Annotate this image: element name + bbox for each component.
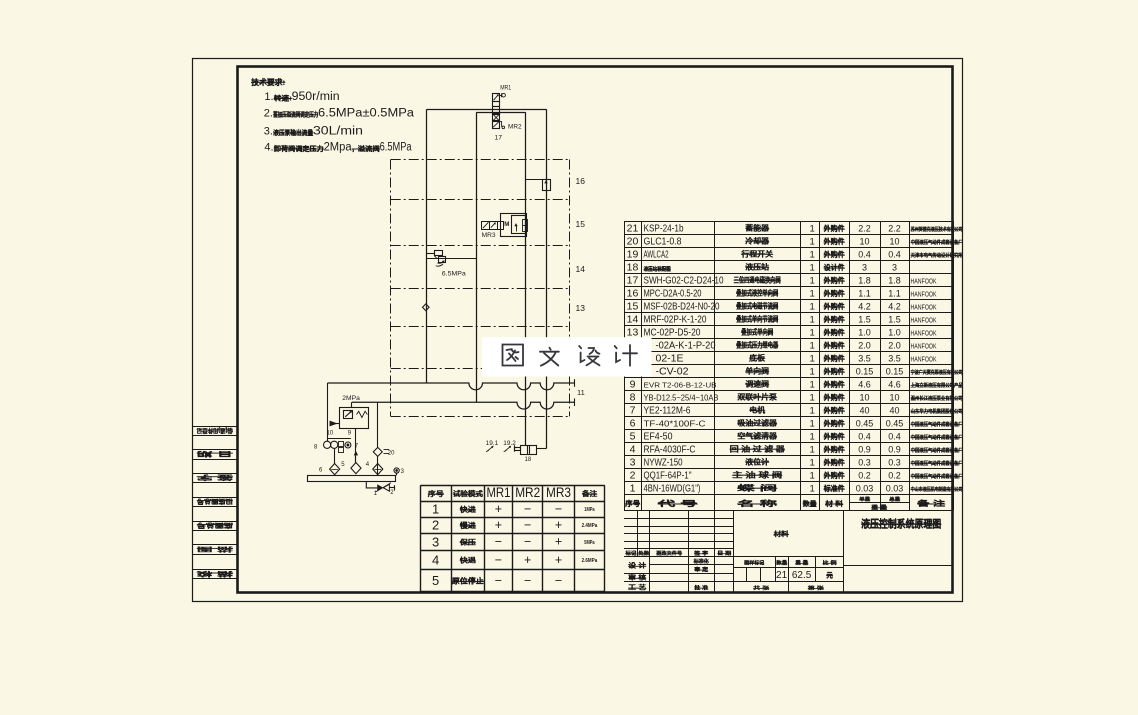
svg-text:0.3: 0.3	[858, 458, 871, 468]
svg-text:0.03: 0.03	[886, 484, 904, 494]
svg-text:备注: 备注	[581, 489, 597, 498]
svg-text:40: 40	[889, 406, 899, 416]
svg-text:10: 10	[889, 237, 899, 247]
svg-text:HANFOOK: HANFOOK	[911, 355, 937, 364]
svg-text:处数: 处数	[637, 550, 649, 557]
svg-text:快退: 快退	[460, 556, 476, 565]
svg-text:外购件: 外购件	[824, 250, 845, 259]
svg-text:日 期: 日 期	[197, 450, 233, 458]
svg-text:行程开关: 行程开关	[740, 250, 774, 259]
svg-text:2.0: 2.0	[858, 341, 871, 351]
svg-text:外购件: 外购件	[824, 315, 845, 324]
svg-text:名 称: 名 称	[737, 499, 777, 508]
svg-text:天津市电气传动设计研究所: 天津市电气传动设计研究所	[911, 251, 964, 259]
svg-text:外购件: 外购件	[824, 458, 845, 467]
svg-text:−: −	[555, 573, 562, 587]
svg-text:主 油 球 阀: 主 油 球 阀	[732, 471, 782, 480]
svg-text:回 油 过 滤 器: 回 油 过 滤 器	[730, 445, 786, 454]
svg-text:10: 10	[859, 237, 869, 247]
svg-text:叠加式单向阀: 叠加式单向阀	[741, 328, 773, 337]
svg-text:0.45: 0.45	[856, 419, 874, 429]
svg-text:蝶 阀: 蝶 阀	[737, 484, 777, 493]
svg-text:备 注: 备 注	[916, 499, 946, 508]
svg-text:1: 1	[810, 315, 815, 326]
svg-text:外购件: 外购件	[824, 367, 845, 376]
svg-text:YE2-112M-6: YE2-112M-6	[644, 406, 691, 417]
svg-text:MRF-02P-K-1-20: MRF-02P-K-1-20	[644, 315, 707, 326]
svg-text:外购件: 外购件	[824, 341, 845, 350]
svg-text:−: −	[495, 573, 502, 587]
svg-text:3.5: 3.5	[888, 354, 901, 364]
svg-text:中国液压气动件成套设备厂: 中国液压气动件成套设备厂	[911, 433, 963, 441]
svg-text:重 量: 重 量	[871, 503, 888, 511]
svg-text:签 字: 签 字	[197, 473, 236, 481]
svg-text:HANFOOK: HANFOOK	[911, 277, 937, 286]
svg-text:SWH-G02-C2-D24-10: SWH-G02-C2-D24-10	[644, 276, 724, 287]
svg-text:1.1: 1.1	[858, 289, 871, 299]
svg-text:+: +	[555, 553, 562, 567]
svg-text:叠加式电磁节流阀: 叠加式电磁节流阀	[736, 302, 778, 311]
svg-text:液压站: 液压站	[746, 263, 771, 272]
svg-text:EF4-50: EF4-50	[644, 432, 673, 443]
svg-text:−: −	[524, 502, 531, 516]
svg-text:1: 1	[810, 354, 815, 365]
svg-text:1.8: 1.8	[888, 276, 901, 286]
svg-text:14: 14	[576, 264, 586, 274]
svg-text:+: +	[555, 518, 562, 532]
svg-text:3: 3	[630, 457, 636, 469]
svg-text:3.5: 3.5	[858, 354, 871, 364]
svg-text:1: 1	[630, 483, 636, 495]
svg-text:标准化: 标准化	[693, 557, 710, 565]
svg-text:QQ1F-64P-1": QQ1F-64P-1"	[644, 471, 692, 482]
svg-text:5MPa: 5MPa	[584, 540, 594, 546]
svg-text:液位计: 液位计	[746, 458, 771, 467]
svg-text:慢进: 慢进	[460, 521, 476, 530]
svg-text:1: 1	[810, 341, 815, 352]
svg-text:中国液压气动件成套设备厂: 中国液压气动件成套设备厂	[911, 446, 963, 454]
svg-text:1: 1	[810, 432, 815, 443]
svg-text:GLC1-0.8: GLC1-0.8	[644, 237, 682, 248]
svg-text:6.5MPa: 6.5MPa	[442, 270, 467, 277]
svg-text:外购件: 外购件	[824, 445, 845, 454]
svg-text:第 张: 第 张	[808, 585, 824, 592]
svg-text:4.6: 4.6	[888, 380, 901, 390]
svg-text:审 定: 审 定	[694, 566, 709, 574]
svg-text:日 期: 日 期	[717, 550, 731, 557]
svg-text:蓄能器: 蓄能器	[746, 224, 771, 233]
svg-text:+: +	[524, 553, 531, 567]
svg-text:+: +	[495, 502, 502, 516]
svg-text:1: 1	[810, 445, 815, 456]
svg-text:0.2: 0.2	[888, 471, 901, 481]
svg-text:1: 1	[810, 380, 815, 391]
svg-text:旧底图总号: 旧底图总号	[197, 497, 233, 505]
svg-text:2.6MPa: 2.6MPa	[582, 558, 598, 564]
svg-text:代 号: 代 号	[655, 499, 698, 508]
svg-text:宁波广天赛克思液压有限公司: 宁波广天赛克思液压有限公司	[911, 368, 963, 376]
svg-text:1.8: 1.8	[858, 276, 871, 286]
svg-text:1.5: 1.5	[888, 315, 901, 325]
svg-text:M: M	[504, 221, 509, 228]
svg-text:快进: 快进	[460, 505, 476, 514]
svg-text:13: 13	[576, 303, 586, 313]
svg-text:15: 15	[576, 219, 586, 229]
svg-text:技术要求:: 技术要求:	[251, 77, 285, 87]
svg-text:叠加式单向节流阀: 叠加式单向节流阀	[736, 315, 778, 324]
svg-text:11: 11	[577, 388, 585, 397]
svg-text:HANFOOK: HANFOOK	[911, 290, 937, 299]
svg-text:比 例: 比 例	[823, 560, 837, 567]
svg-text:电机: 电机	[749, 406, 766, 415]
svg-text:中国液压气动件成套设备厂: 中国液压气动件成套设备厂	[911, 472, 963, 480]
svg-text:借(通)用件登记: 借(通)用件登记	[197, 426, 234, 434]
svg-text:1: 1	[810, 419, 815, 430]
svg-text:TF-40*100F-C: TF-40*100F-C	[644, 419, 706, 429]
svg-text:单向阀: 单向阀	[746, 367, 770, 376]
svg-text:−: −	[495, 553, 502, 567]
svg-text:2: 2	[432, 518, 439, 533]
svg-text:10: 10	[327, 430, 334, 436]
svg-text:-02A-K-1-P-20: -02A-K-1-P-20	[656, 341, 716, 352]
svg-text:2: 2	[630, 470, 636, 482]
svg-text:外购件: 外购件	[824, 302, 845, 311]
svg-text:共 张: 共 张	[753, 585, 769, 592]
svg-text:中国液压气动件成套设备厂: 中国液压气动件成套设备厂	[911, 238, 963, 246]
svg-text:MPC-D2A-0.5-20: MPC-D2A-0.5-20	[644, 289, 702, 300]
svg-text:0.4: 0.4	[888, 250, 901, 260]
svg-text:0.03: 0.03	[856, 484, 874, 494]
svg-text:0.4: 0.4	[858, 250, 871, 260]
svg-text:16: 16	[627, 288, 639, 300]
svg-text:0.15: 0.15	[886, 367, 904, 377]
svg-text:19.2: 19.2	[503, 440, 516, 447]
svg-text:21: 21	[776, 570, 788, 581]
svg-text:MC-02P-D5-20: MC-02P-D5-20	[644, 328, 701, 339]
svg-text:1.5: 1.5	[858, 315, 871, 325]
svg-text:10: 10	[859, 393, 869, 403]
svg-text:设计件: 设计件	[824, 263, 845, 272]
svg-text:RFA-4030F-C: RFA-4030F-C	[644, 445, 696, 456]
svg-text:0.4: 0.4	[888, 432, 901, 442]
svg-text:吸油过滤器: 吸油过滤器	[738, 419, 778, 428]
svg-text:描 校: 描 校	[194, 570, 233, 578]
svg-text:中国液压气动件成套设备厂: 中国液压气动件成套设备厂	[911, 420, 963, 428]
svg-text:0.2: 0.2	[858, 471, 871, 481]
svg-text:1: 1	[810, 276, 815, 287]
svg-text:1MPa: 1MPa	[584, 507, 594, 513]
svg-text:18: 18	[525, 457, 532, 463]
svg-text:4: 4	[432, 552, 439, 567]
svg-text:0.45: 0.45	[886, 419, 904, 429]
svg-text:5: 5	[432, 573, 439, 588]
svg-text:2MPa: 2MPa	[342, 395, 360, 402]
svg-text:温州长江液压泵业有限公司: 温州长江液压泵业有限公司	[911, 394, 963, 402]
svg-text:外购件: 外购件	[824, 328, 845, 337]
svg-text:数量: 数量	[803, 499, 818, 508]
svg-text:1: 1	[810, 406, 815, 417]
svg-text:描 图: 描 图	[197, 545, 233, 553]
svg-text:中国液压气动件成套设备厂: 中国液压气动件成套设备厂	[911, 459, 963, 467]
svg-text:液压控制系统原理图: 液压控制系统原理图	[861, 517, 941, 530]
svg-text:20: 20	[388, 451, 395, 457]
svg-text:4.6: 4.6	[858, 380, 871, 390]
svg-text:序号: 序号	[624, 499, 640, 508]
svg-text:重 量: 重 量	[795, 560, 808, 567]
svg-text:+: +	[555, 535, 562, 549]
svg-text:外购件: 外购件	[824, 419, 845, 428]
svg-text:设 计: 设 计	[628, 562, 646, 570]
svg-text:1: 1	[810, 289, 815, 300]
svg-text:2.2: 2.2	[858, 224, 871, 234]
svg-text:原位停止: 原位停止	[452, 576, 484, 585]
svg-text:21: 21	[627, 223, 639, 235]
svg-text:HANFOOK: HANFOOK	[911, 316, 937, 325]
svg-text:1: 1	[810, 367, 815, 378]
svg-text:1: 1	[810, 328, 815, 339]
svg-text:40: 40	[859, 406, 869, 416]
svg-text:保压: 保压	[459, 538, 476, 547]
svg-text:19: 19	[627, 249, 639, 261]
svg-text:9: 9	[630, 379, 636, 391]
svg-text:MR3: MR3	[546, 484, 571, 500]
svg-text:0.9: 0.9	[858, 445, 871, 455]
svg-text:总重: 总重	[889, 496, 900, 503]
svg-text:4.2: 4.2	[888, 302, 901, 312]
svg-text:1.0: 1.0	[858, 328, 871, 338]
svg-text:19.1: 19.1	[486, 440, 499, 447]
svg-text:14: 14	[627, 314, 639, 326]
svg-text:4.2: 4.2	[858, 302, 871, 312]
svg-text:4BN-16WD(G1"): 4BN-16WD(G1")	[644, 484, 701, 495]
svg-text:15: 15	[627, 301, 639, 313]
svg-text:1: 1	[810, 224, 815, 235]
svg-text:序号: 序号	[427, 489, 444, 498]
svg-text:0.3: 0.3	[888, 458, 901, 468]
svg-text:外购件: 外购件	[824, 354, 845, 363]
svg-text:0.4: 0.4	[858, 432, 871, 442]
svg-text:单重: 单重	[859, 496, 870, 503]
svg-text:−: −	[524, 573, 531, 587]
svg-text:1: 1	[810, 250, 815, 261]
svg-text:1: 1	[432, 502, 439, 517]
svg-text:MR1: MR1	[500, 84, 511, 91]
svg-text:13: 13	[627, 327, 639, 339]
svg-text:外购件: 外购件	[824, 276, 845, 285]
svg-text:17: 17	[627, 275, 639, 287]
svg-text:试验模式: 试验模式	[453, 489, 483, 498]
svg-text:外购件: 外购件	[824, 393, 845, 402]
svg-text:材 料: 材 料	[824, 499, 844, 508]
svg-text:62.5: 62.5	[792, 570, 812, 581]
svg-text:2.2: 2.2	[888, 224, 901, 234]
svg-text:叠加式压力继电器: 叠加式压力继电器	[736, 341, 779, 350]
svg-text:三位四通电磁换向阀: 三位四通电磁换向阀	[734, 276, 781, 285]
svg-text:−: −	[524, 518, 531, 532]
svg-text:空气滤清器: 空气滤清器	[738, 432, 778, 441]
svg-text:图样标记: 图样标记	[744, 560, 764, 567]
svg-text:YB-D12.5~25/4~10AB: YB-D12.5~25/4~10AB	[644, 393, 719, 403]
svg-text:外购件: 外购件	[824, 471, 845, 480]
svg-text:元: 元	[827, 571, 834, 579]
svg-text:液压站装配图: 液压站装配图	[644, 265, 671, 273]
svg-text:材料: 材料	[773, 529, 790, 538]
svg-text:HANFOOK: HANFOOK	[911, 329, 937, 338]
svg-text:调速阀: 调速阀	[746, 380, 770, 389]
svg-text:数量: 数量	[776, 560, 787, 567]
svg-text:山东华力电机集团股份公司: 山东华力电机集团股份公司	[911, 407, 963, 415]
svg-text:双联叶片泵: 双联叶片泵	[738, 393, 778, 402]
svg-text:−: −	[495, 535, 502, 549]
svg-text:上海立新液压有限公司产品: 上海立新液压有限公司产品	[911, 381, 963, 389]
svg-text:MSF-02B-D24-N0-20: MSF-02B-D24-N0-20	[644, 302, 720, 313]
svg-text:1: 1	[810, 237, 815, 248]
svg-text:外购件: 外购件	[824, 380, 845, 389]
svg-text:−: −	[524, 535, 531, 549]
svg-text:1: 1	[810, 484, 815, 495]
svg-text:HANFOOK: HANFOOK	[911, 342, 937, 351]
svg-text:4: 4	[630, 444, 636, 456]
svg-text:冷却器: 冷却器	[746, 237, 771, 246]
svg-text:1: 1	[810, 471, 815, 482]
svg-text:-CV-02: -CV-02	[656, 367, 689, 378]
svg-text:10: 10	[889, 393, 899, 403]
svg-text:1: 1	[810, 458, 815, 469]
svg-text:批 准: 批 准	[694, 584, 709, 592]
svg-text:中山市液压机电制造有限公司: 中山市液压机电制造有限公司	[911, 485, 963, 493]
svg-text:6: 6	[630, 418, 636, 430]
svg-text:外购件: 外购件	[824, 224, 845, 233]
svg-text:02-1E: 02-1E	[656, 354, 684, 365]
svg-text:1: 1	[810, 393, 815, 404]
svg-text:3: 3	[892, 263, 897, 273]
svg-text:MR1: MR1	[486, 484, 510, 500]
svg-text:外购件: 外购件	[824, 289, 845, 298]
svg-text:1.0: 1.0	[888, 328, 901, 338]
svg-text:标记: 标记	[625, 550, 637, 557]
svg-text:2.0: 2.0	[888, 341, 901, 351]
svg-text:0.15: 0.15	[856, 367, 874, 377]
svg-text:5: 5	[630, 431, 636, 443]
svg-text:18: 18	[627, 262, 639, 274]
svg-text:苏州贺德克液压技术有限公司: 苏州贺德克液压技术有限公司	[911, 225, 963, 233]
svg-text:标准件: 标准件	[823, 484, 845, 493]
svg-text:7: 7	[630, 405, 636, 417]
svg-text:3: 3	[432, 534, 439, 549]
svg-text:+: +	[495, 518, 502, 532]
svg-text:底图总号: 底图总号	[197, 521, 233, 529]
svg-text:外购件: 外购件	[824, 237, 845, 246]
svg-text:1: 1	[810, 263, 815, 274]
svg-text:20: 20	[627, 236, 639, 248]
svg-text:KSP-24-1b: KSP-24-1b	[644, 224, 684, 235]
svg-text:AWLCA2: AWLCA2	[644, 250, 669, 261]
svg-text:NYWZ-150: NYWZ-150	[644, 458, 683, 469]
svg-text:8: 8	[630, 392, 636, 404]
svg-text:外购件: 外购件	[824, 432, 845, 441]
svg-text:更改文件号: 更改文件号	[656, 550, 682, 557]
svg-text:MR3: MR3	[482, 232, 497, 239]
svg-text:工 艺: 工 艺	[628, 584, 646, 592]
svg-text:外购件: 外购件	[824, 406, 845, 415]
svg-text:叠加式液控单向阀: 叠加式液控单向阀	[736, 289, 778, 298]
svg-text:MR2: MR2	[515, 484, 540, 500]
svg-text:−: −	[555, 502, 562, 516]
svg-text:签 字: 签 字	[693, 550, 709, 557]
svg-text:3: 3	[862, 263, 867, 273]
svg-text:17: 17	[495, 134, 503, 141]
svg-text:16: 16	[576, 176, 586, 186]
svg-text:1: 1	[810, 302, 815, 313]
svg-text:1.1: 1.1	[888, 289, 901, 299]
svg-text:2.4MPa: 2.4MPa	[582, 523, 598, 529]
svg-text:HANFOOK: HANFOOK	[911, 303, 937, 312]
svg-text:MR2: MR2	[508, 123, 522, 130]
svg-text:审 核: 审 核	[628, 574, 646, 582]
svg-text:0.9: 0.9	[888, 445, 901, 455]
svg-text:底板: 底板	[749, 354, 766, 363]
svg-text:EVR T2-06-B-12-UB: EVR T2-06-B-12-UB	[644, 383, 717, 390]
